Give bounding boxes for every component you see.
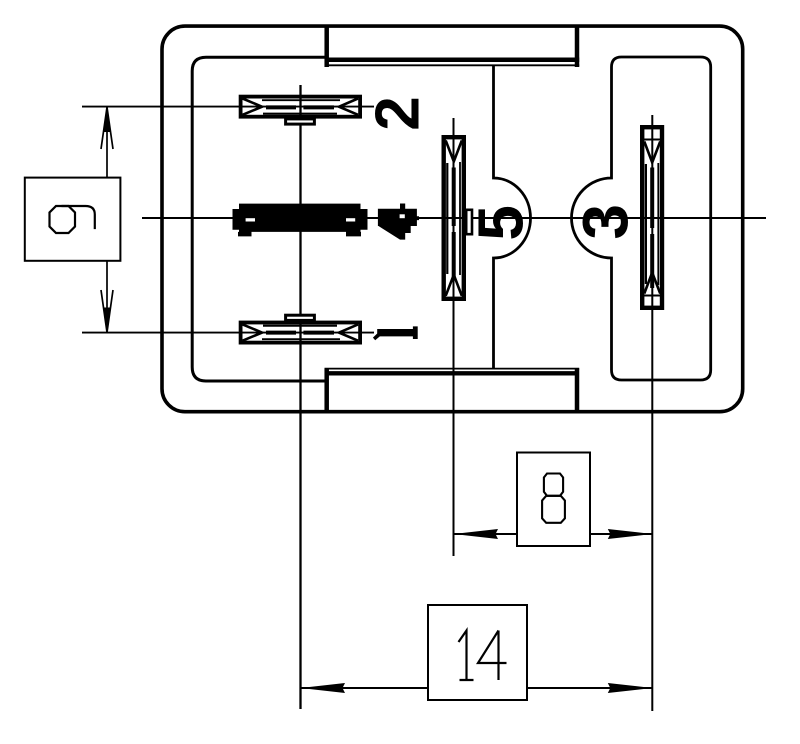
- pin 2 inner top line: [262, 99, 340, 101]
- arrow right (dim 8): [608, 529, 653, 539]
- pin 4 solid blade: [233, 204, 368, 237]
- pin 2 inner bottom line: [263, 113, 337, 115]
- mounting tab top: thick bottom line: [325, 57, 580, 62]
- relay housing outer outline: [162, 26, 743, 412]
- pin 5 lock step: [466, 210, 472, 234]
- extension line top (pin 2 axis): [82, 106, 374, 108]
- pin 3 blade outline: [642, 127, 662, 308]
- pin 5 bottom chevron: [446, 275, 462, 296]
- dimension text 14 (stroke glyphs): [459, 631, 507, 681]
- pin 1 center dashes: [266, 331, 296, 335]
- dimension text 8 (stroke glyph): [542, 474, 565, 523]
- pin 3 bottom divider: [642, 295, 662, 297]
- pin 2 left chevron: [243, 99, 262, 115]
- centerline vertical pins 1/2/4: [299, 85, 301, 709]
- center wall with bump around pin 5 label: [494, 66, 531, 370]
- arrow down (dim 9): [101, 290, 113, 332]
- mounting tab top: left edge: [324, 26, 329, 67]
- arrow up (dim 9): [101, 107, 113, 149]
- pin 4 white notch right: [346, 218, 355, 221]
- pin 2 lock step: [286, 119, 315, 124]
- pin 5 inner left line: [446, 163, 448, 274]
- dimension box 14: [428, 605, 527, 700]
- pin 1 lock step: [286, 315, 315, 320]
- pin 1 inner bottom line: [262, 338, 340, 340]
- arrow right (dim 14): [608, 683, 653, 693]
- mounting tab bottom: left edge: [324, 369, 329, 413]
- dimension line 9 (vertical): [106, 107, 108, 178]
- dimension box 8: [517, 453, 590, 547]
- pin 3 top divider: [642, 139, 662, 141]
- dimension box 9: [25, 178, 121, 261]
- svg-text:5: 5: [465, 205, 537, 241]
- pin 3 bottom chevron: [644, 273, 660, 294]
- pin 1 blade outline: [241, 323, 361, 343]
- dimension line 14: [301, 687, 653, 689]
- pin 1 left chevron: [243, 324, 262, 340]
- extension line bottom (pin 1 axis): [82, 332, 374, 334]
- pin 2 center dashes: [266, 105, 296, 109]
- mounting tab top: right edge: [575, 26, 580, 67]
- right compartment outline with bump around pin 3 label: [572, 57, 711, 380]
- arrow left (dim 14): [301, 683, 346, 693]
- pin number 4: [378, 204, 419, 240]
- pin 3 top chevron: [644, 142, 660, 163]
- centerline vertical pin 3: [651, 115, 653, 711]
- pin 4 white notch left: [246, 218, 255, 221]
- pin 2 blade outline: [241, 97, 361, 117]
- pin 5 top chevron: [446, 141, 462, 162]
- inner housing left compartment outline: [192, 57, 327, 381]
- mounting tab bottom: thin top line: [325, 368, 580, 370]
- pin 1 right chevron: [339, 324, 358, 340]
- mounting tab top: thin lower line: [325, 64, 580, 66]
- arrow left (dim 8): [454, 529, 499, 539]
- svg-text:2: 2: [364, 96, 433, 130]
- pin 3 center dashes: [650, 168, 654, 229]
- dimension line 8: [454, 533, 653, 535]
- centerline vertical pin 5: [453, 118, 455, 556]
- pin 2 right chevron: [339, 99, 358, 115]
- svg-text:3: 3: [570, 204, 642, 240]
- pin number 1: [373, 326, 418, 340]
- mounting tab bottom: thick line: [327, 371, 577, 375]
- pin 5 center dashes: [452, 168, 456, 227]
- pin 3 inner right line: [657, 163, 659, 285]
- mounting tab bottom: right edge: [575, 369, 580, 413]
- pin 5 inner right line: [459, 162, 461, 275]
- pin 5 blade outline: [444, 137, 464, 299]
- pin 1 inner top line: [263, 325, 337, 327]
- dimension text 9 (rotated stroke glyph): [50, 206, 95, 233]
- centerline horizontal (main axis): [142, 217, 766, 219]
- pin 3 inner left line: [645, 164, 647, 284]
